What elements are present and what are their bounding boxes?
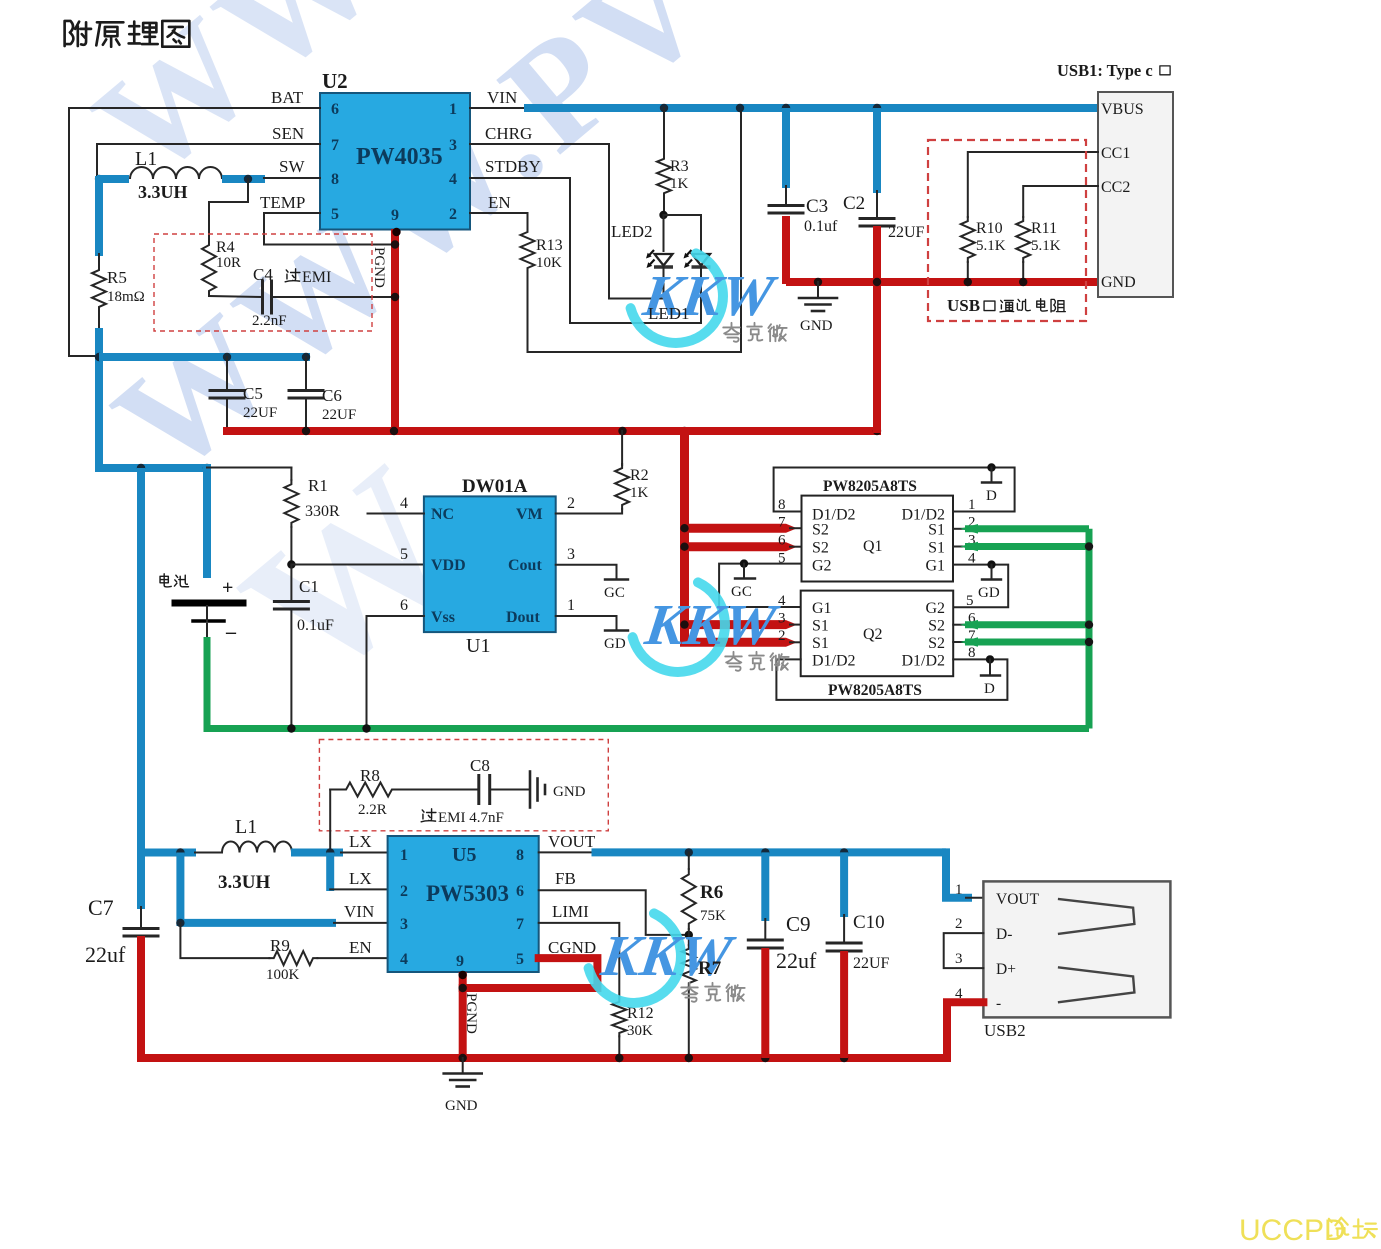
svg-text:DW01A: DW01A bbox=[462, 476, 528, 497]
USB1 connector box bbox=[1098, 92, 1173, 297]
svg-text:Dout: Dout bbox=[506, 609, 540, 626]
wire R1 top bbox=[207, 467, 291, 469]
EMI dashed box (bottom) bbox=[319, 740, 608, 831]
svg-text:10K: 10K bbox=[536, 255, 562, 271]
Q1 outer package bbox=[774, 468, 1015, 512]
node C6 on red bus bbox=[302, 427, 310, 435]
svg-text:VIN: VIN bbox=[344, 902, 374, 921]
svg-text:R2: R2 bbox=[630, 467, 649, 484]
node SW junction bbox=[244, 175, 252, 183]
svg-text:30K: 30K bbox=[627, 1023, 653, 1039]
wire CC1 to R10 bbox=[968, 152, 1098, 217]
node EN tap bbox=[736, 104, 744, 112]
label 过EMI bbox=[285, 269, 300, 282]
node FB junction bbox=[685, 931, 693, 939]
svg-text:-: - bbox=[996, 995, 1001, 1012]
svg-text:L1: L1 bbox=[135, 148, 157, 170]
svg-text:S1: S1 bbox=[812, 618, 829, 635]
wire EN via R13 to VBUS bbox=[470, 213, 528, 228]
svg-text:EN: EN bbox=[349, 938, 372, 957]
wire green Q2 S2 pin7 bbox=[953, 641, 967, 643]
wire red Q2 S1 pin2 bbox=[680, 638, 786, 647]
resistor R2 1K bbox=[615, 464, 629, 509]
svg-text:R8: R8 bbox=[360, 766, 380, 785]
svg-text:U1: U1 bbox=[466, 635, 490, 657]
ground symbol (usb area) bbox=[817, 282, 819, 297]
wire red usb gnd bus bbox=[786, 278, 1098, 286]
wire LIMI to R12 bbox=[539, 923, 620, 999]
svg-text:PW8205A8TS: PW8205A8TS bbox=[828, 682, 922, 699]
svg-text:U2: U2 bbox=[322, 69, 348, 93]
wire R8 to C8 bbox=[397, 789, 479, 791]
wire C4 to PGND bbox=[272, 296, 396, 298]
svg-text:USB: USB bbox=[947, 296, 980, 315]
wire Q1 G2 to GC and Q2 G1 bbox=[719, 564, 801, 607]
resistor R7 bbox=[682, 945, 696, 987]
svg-text:3: 3 bbox=[400, 916, 408, 933]
Q2 outer package bbox=[776, 659, 1007, 700]
node R12 on bus bbox=[615, 1054, 623, 1062]
svg-text:75K: 75K bbox=[700, 908, 726, 924]
wire blue to battery + bbox=[203, 464, 211, 578]
resistor R1 330R bbox=[290, 468, 292, 481]
svg-text:3: 3 bbox=[567, 546, 575, 563]
wire blue R5 down to node bbox=[95, 328, 103, 468]
svg-text:–: – bbox=[225, 621, 237, 643]
svg-text:VBUS: VBUS bbox=[1101, 101, 1144, 118]
IC U5 PW5303 bbox=[388, 836, 539, 972]
resistor R10 5.1K bbox=[961, 217, 975, 262]
svg-text:R10: R10 bbox=[976, 220, 1003, 237]
wire FB bbox=[539, 890, 689, 935]
capacitor C10 22UF bbox=[840, 852, 848, 917]
svg-text:3: 3 bbox=[449, 137, 457, 154]
capacitor C1 0.1uF bbox=[290, 565, 292, 602]
svg-text:R7: R7 bbox=[698, 958, 722, 979]
node R2 on red bus bbox=[618, 427, 626, 435]
svg-text:1: 1 bbox=[449, 101, 457, 118]
wire red C2 down through gnd bus to main bus bbox=[873, 226, 881, 433]
wire LED1 cathode to STDBY bbox=[470, 178, 701, 323]
logo KKW at 702,625 bbox=[633, 582, 784, 672]
svg-text:G1: G1 bbox=[925, 558, 945, 575]
svg-text:7: 7 bbox=[516, 916, 524, 933]
svg-text:G1: G1 bbox=[812, 600, 832, 617]
svg-text:VOUT: VOUT bbox=[996, 891, 1040, 908]
capacitor C3 0.1uf bbox=[782, 108, 790, 188]
svg-text:4: 4 bbox=[449, 171, 457, 188]
logo KKW at 658,956 bbox=[589, 913, 740, 1003]
svg-text:USB1: Type c: USB1: Type c bbox=[1057, 61, 1153, 80]
resistor R4 10R bbox=[202, 240, 216, 296]
wire red PGND drop bbox=[459, 972, 467, 1058]
svg-text:+: + bbox=[222, 577, 233, 599]
USB2 connector box bbox=[983, 881, 1170, 1017]
node gnd stub bbox=[814, 278, 822, 286]
svg-text:GND: GND bbox=[800, 318, 833, 334]
wire BAT net bbox=[69, 108, 320, 356]
svg-text:4: 4 bbox=[400, 495, 408, 512]
wire green riser right bbox=[1086, 529, 1093, 729]
svg-text:D+: D+ bbox=[996, 961, 1016, 978]
svg-text:VOUT: VOUT bbox=[548, 832, 596, 851]
wire blue battery to L1 bbox=[97, 175, 129, 183]
svg-text:GD: GD bbox=[978, 585, 1000, 601]
svg-text:1: 1 bbox=[968, 497, 976, 513]
node TEMP/PGND bbox=[391, 240, 399, 248]
svg-text:C2: C2 bbox=[843, 193, 865, 214]
IC U1 DW01A bbox=[424, 496, 556, 632]
svg-text:5.1K: 5.1K bbox=[976, 238, 1006, 254]
svg-text:USB2: USB2 bbox=[984, 1021, 1026, 1040]
svg-text:C10: C10 bbox=[853, 912, 885, 933]
svg-text:C9: C9 bbox=[786, 912, 811, 936]
node Qred on red bus bbox=[680, 427, 688, 435]
capacitor C6 22UF bbox=[302, 353, 310, 361]
svg-text:EMI: EMI bbox=[302, 269, 331, 286]
svg-text:R11: R11 bbox=[1031, 220, 1057, 237]
svg-text:R13: R13 bbox=[536, 237, 563, 254]
resistor R13 10K bbox=[521, 228, 535, 272]
svg-text:CC2: CC2 bbox=[1101, 179, 1130, 196]
net GD (discharge gate) bbox=[605, 629, 628, 631]
svg-text:5: 5 bbox=[400, 546, 408, 563]
resistor R3 1K bbox=[663, 108, 665, 155]
wire TEMP to PGND bbox=[264, 213, 395, 245]
wire NC stub bbox=[368, 513, 424, 515]
capacitor C9 22uf bbox=[761, 852, 769, 921]
wire Q1 G1 to GD and Q2 G2 bbox=[953, 565, 1008, 608]
wire blue long drop to boost section bbox=[137, 468, 145, 853]
wire red drop to mosfet sources bbox=[680, 427, 689, 642]
svg-text:2: 2 bbox=[955, 916, 963, 932]
svg-text:Cout: Cout bbox=[508, 557, 542, 574]
svg-text:R6: R6 bbox=[700, 882, 723, 903]
svg-text:3: 3 bbox=[778, 611, 786, 627]
svg-text:BAT: BAT bbox=[271, 88, 304, 107]
svg-text:S1: S1 bbox=[928, 522, 945, 539]
svg-text:5: 5 bbox=[331, 206, 339, 223]
svg-text:EMI 4.7nF: EMI 4.7nF bbox=[438, 810, 504, 826]
svg-text:R5: R5 bbox=[107, 268, 127, 287]
EMI dashed box (top) bbox=[154, 234, 372, 331]
title 附原理图 bbox=[65, 21, 91, 46]
wire green Q1 S1 pin3 bbox=[953, 546, 967, 548]
node BAT joins blue bbox=[95, 353, 103, 361]
svg-text:C3: C3 bbox=[806, 196, 828, 217]
svg-text:22uf: 22uf bbox=[776, 948, 817, 973]
svg-text:GND: GND bbox=[445, 1098, 478, 1114]
svg-text:0.1uf: 0.1uf bbox=[804, 218, 838, 235]
svg-text:CHRG: CHRG bbox=[485, 124, 532, 143]
svg-text:10R: 10R bbox=[216, 255, 241, 271]
svg-text:EN: EN bbox=[488, 193, 511, 212]
svg-text:6: 6 bbox=[778, 533, 786, 549]
resistor R8 2.2R bbox=[330, 789, 341, 791]
svg-text:6: 6 bbox=[331, 101, 339, 118]
node C2 on red bus bbox=[873, 427, 881, 435]
wire CC2 to R11 bbox=[1023, 186, 1098, 217]
node Vss on green bus bbox=[362, 724, 370, 732]
svg-text:L1: L1 bbox=[235, 816, 257, 838]
node long-drop junction bbox=[137, 464, 145, 472]
dashed box USB comm resistors bbox=[928, 140, 1086, 321]
svg-text:C5: C5 bbox=[243, 384, 263, 403]
svg-text:2: 2 bbox=[567, 495, 575, 512]
LED2 bbox=[646, 250, 673, 268]
svg-text:LED1: LED1 bbox=[648, 304, 690, 323]
svg-text:LIMI: LIMI bbox=[552, 902, 589, 921]
wire green Q2 S2 pin6 bbox=[953, 624, 967, 626]
resistor R9 100K bbox=[269, 951, 317, 965]
resistor R12 30K bbox=[612, 998, 626, 1036]
svg-text:R9: R9 bbox=[270, 936, 290, 955]
svg-text:VDD: VDD bbox=[431, 557, 466, 574]
svg-text:Q2: Q2 bbox=[863, 626, 883, 643]
node C10 on bus bbox=[840, 1054, 848, 1062]
wire Vss to green bus bbox=[367, 616, 424, 729]
IC U2 PW4035 bbox=[320, 93, 470, 230]
svg-text:S1: S1 bbox=[928, 540, 945, 557]
node PGND on bus bbox=[459, 1054, 467, 1062]
svg-text:2.2nF: 2.2nF bbox=[252, 313, 287, 329]
svg-text:STDBY: STDBY bbox=[485, 157, 541, 176]
svg-text:PW5303: PW5303 bbox=[426, 881, 509, 906]
wire green battery- to bus bbox=[204, 637, 211, 729]
svg-text:7: 7 bbox=[778, 515, 786, 531]
ground (sideways) for C8 bbox=[529, 772, 532, 808]
svg-text:S2: S2 bbox=[812, 522, 829, 539]
svg-text:LX: LX bbox=[349, 832, 372, 851]
resistor R6 75K bbox=[688, 852, 690, 869]
node C9 on bus bbox=[761, 1054, 769, 1062]
svg-text:CC1: CC1 bbox=[1101, 145, 1130, 162]
wire R4 to C4 bbox=[209, 296, 262, 297]
wire to LED anodes bbox=[663, 215, 665, 251]
svg-text:330R: 330R bbox=[305, 503, 340, 520]
svg-text:GD: GD bbox=[604, 636, 626, 652]
node R7 on bus bbox=[685, 1054, 693, 1062]
capacitor C4 2.2nF bbox=[261, 281, 264, 313]
wire Cout to GC bbox=[556, 565, 617, 578]
wire red bottom gnd bus bbox=[137, 1054, 947, 1062]
wire blue corner to battery column bbox=[95, 464, 207, 472]
svg-text:D: D bbox=[986, 488, 997, 504]
svg-text:S2: S2 bbox=[812, 540, 829, 557]
svg-text:6: 6 bbox=[516, 883, 524, 900]
wire battery minus stub bbox=[206, 624, 208, 640]
wire VDD bbox=[291, 564, 424, 566]
wire VOUT blue bbox=[539, 851, 593, 853]
wire C8 to gnd bbox=[490, 789, 528, 791]
capacitor C7 22uf bbox=[137, 853, 145, 910]
net D (Q2 drain) bbox=[986, 655, 994, 663]
wire LX node up to R8 bbox=[329, 790, 331, 853]
svg-text:S2: S2 bbox=[928, 618, 945, 635]
svg-text:1K: 1K bbox=[670, 176, 689, 192]
svg-text:18mΩ: 18mΩ bbox=[107, 289, 145, 305]
svg-text:2: 2 bbox=[449, 206, 457, 223]
svg-text:D1/D2: D1/D2 bbox=[901, 653, 945, 670]
svg-text:U5: U5 bbox=[452, 844, 476, 866]
usb contact shape bottom bbox=[1058, 967, 1135, 1002]
svg-text:8: 8 bbox=[516, 847, 524, 864]
svg-text:9: 9 bbox=[391, 207, 399, 224]
svg-text:R4: R4 bbox=[216, 239, 235, 256]
usb contact shape top bbox=[1058, 899, 1135, 934]
wire green Q1 S1 pin2 bbox=[953, 528, 967, 530]
svg-text:8: 8 bbox=[331, 171, 339, 188]
svg-text:7: 7 bbox=[331, 137, 339, 154]
wire blue L1 to SW bbox=[222, 175, 265, 183]
svg-text:22UF: 22UF bbox=[243, 405, 277, 421]
svg-text:C4: C4 bbox=[253, 265, 273, 284]
svg-text:1K: 1K bbox=[630, 485, 649, 501]
svg-text:100K: 100K bbox=[266, 967, 300, 983]
svg-text:4: 4 bbox=[400, 951, 408, 968]
svg-text:D: D bbox=[984, 681, 995, 697]
svg-text:PGND: PGND bbox=[371, 247, 387, 288]
wire red C3 to gnd bus bbox=[782, 216, 790, 284]
svg-text:TEMP: TEMP bbox=[260, 193, 305, 212]
svg-text:4: 4 bbox=[778, 593, 786, 609]
svg-text:0.1uF: 0.1uF bbox=[297, 617, 334, 634]
wire EN via R9 bbox=[180, 923, 269, 958]
node VDD junction bbox=[287, 560, 295, 568]
wire red C7 to bottom bus bbox=[137, 936, 145, 1062]
wire D- D+ bracket bbox=[944, 933, 984, 968]
svg-text:PW4035: PW4035 bbox=[356, 144, 443, 170]
svg-text:PW8205A8TS: PW8205A8TS bbox=[823, 478, 917, 495]
svg-text:3: 3 bbox=[955, 951, 963, 967]
wire VM to R2 bbox=[556, 509, 622, 514]
node PGND on red bus bbox=[390, 427, 398, 435]
net GC (charge gate) bbox=[605, 578, 628, 580]
wire blue battery bus horizontal bbox=[99, 353, 310, 361]
svg-text:C8: C8 bbox=[470, 756, 490, 775]
svg-text:GND: GND bbox=[1101, 274, 1136, 291]
wire VIN to VBUS bbox=[470, 107, 526, 109]
ground symbol (bottom) bbox=[462, 1058, 464, 1073]
label 过EMI 4.7nF bbox=[421, 809, 436, 822]
node battery/R1 junction bbox=[203, 464, 211, 472]
wire red Q1 S2 pin6 bbox=[685, 542, 787, 551]
wire red USB2 minus to bus bbox=[947, 1002, 983, 1058]
svg-text:D1/D2: D1/D2 bbox=[812, 653, 856, 670]
capacitor C2 22UF bbox=[873, 108, 881, 193]
net D (Q1 drain) bbox=[987, 463, 995, 471]
svg-text:G2: G2 bbox=[812, 558, 832, 575]
svg-text:5: 5 bbox=[516, 951, 524, 968]
node C2/gnd bus bbox=[873, 278, 881, 286]
svg-text:5.1K: 5.1K bbox=[1031, 238, 1061, 254]
svg-text:9: 9 bbox=[456, 953, 464, 970]
svg-text:1: 1 bbox=[400, 847, 408, 864]
svg-text:22UF: 22UF bbox=[322, 407, 356, 423]
node C2 tap bbox=[873, 104, 881, 112]
svg-text:22uf: 22uf bbox=[85, 942, 126, 967]
svg-text:22UF: 22UF bbox=[888, 224, 925, 241]
node L1 left junction bbox=[95, 175, 103, 183]
svg-text:Vss: Vss bbox=[431, 609, 455, 626]
resistor R5 18mohm bbox=[95, 176, 103, 256]
svg-text:S2: S2 bbox=[928, 635, 945, 652]
inductor L1 (bottom) 3.3UH bbox=[137, 849, 196, 857]
watermark WWW.PW bbox=[65, 0, 745, 724]
mosfet Q2 body bbox=[801, 591, 954, 677]
svg-text:R3: R3 bbox=[670, 158, 689, 175]
svg-text:SW: SW bbox=[279, 157, 305, 176]
inductor L1 (top) 3.3UH bbox=[130, 167, 222, 179]
svg-text:NC: NC bbox=[431, 506, 454, 523]
wire red CGND to PGND bbox=[463, 958, 598, 988]
wire blue VIN feed bbox=[176, 853, 184, 927]
wire red PGND drop from U2 pin9 bbox=[391, 229, 399, 431]
wire SW to R4 bbox=[209, 179, 248, 240]
wire blue LX2 bbox=[326, 853, 334, 892]
svg-text:FB: FB bbox=[555, 869, 576, 888]
svg-text:VIN: VIN bbox=[487, 88, 517, 107]
svg-text:1: 1 bbox=[955, 882, 963, 898]
svg-text:2: 2 bbox=[400, 883, 408, 900]
svg-text:C1: C1 bbox=[299, 577, 319, 596]
wire SW bbox=[264, 177, 320, 179]
svg-text:R1: R1 bbox=[308, 476, 328, 495]
wire SEN bbox=[97, 144, 320, 176]
wire Dout to GD bbox=[556, 616, 617, 629]
svg-text:C6: C6 bbox=[322, 386, 342, 405]
node C1 on green bus bbox=[287, 724, 295, 732]
node C3 tap bbox=[782, 104, 790, 112]
wire red Q2 S1 pin3 bbox=[685, 620, 787, 629]
svg-text:Q1: Q1 bbox=[863, 538, 883, 555]
svg-text:C7: C7 bbox=[88, 895, 114, 920]
capacitor C8 4.7nF bbox=[477, 776, 480, 804]
svg-text:6: 6 bbox=[400, 597, 408, 614]
svg-text:5: 5 bbox=[966, 593, 974, 609]
wire green bottom bus bbox=[204, 725, 1090, 732]
wire LED2 cathode to CHRG bbox=[470, 144, 664, 299]
node R3 tap bbox=[660, 104, 668, 112]
svg-text:LX: LX bbox=[349, 869, 372, 888]
mosfet Q1 body bbox=[802, 496, 954, 582]
node LED split bbox=[659, 211, 667, 219]
wire red main bus (charger gnd) bbox=[223, 427, 881, 435]
svg-text:LED2: LED2 bbox=[611, 222, 653, 241]
node C4/PGND bbox=[391, 293, 399, 301]
svg-text:3.3UH: 3.3UH bbox=[218, 872, 270, 893]
logo KKW at 700,296 bbox=[631, 253, 782, 343]
svg-text:S1: S1 bbox=[812, 635, 829, 652]
svg-text:3.3UH: 3.3UH bbox=[138, 182, 188, 202]
svg-text:8: 8 bbox=[778, 497, 786, 513]
svg-text:PGND: PGND bbox=[463, 993, 479, 1034]
LED1 bbox=[684, 250, 711, 268]
battery 电池 bbox=[160, 574, 171, 587]
svg-text:2.2R: 2.2R bbox=[358, 802, 387, 818]
wire red Q1 S2 pin7 bbox=[685, 524, 787, 533]
svg-text:D-: D- bbox=[996, 926, 1012, 943]
svg-text:VM: VM bbox=[516, 506, 543, 523]
svg-text:1: 1 bbox=[567, 597, 575, 614]
svg-text:SEN: SEN bbox=[272, 124, 304, 143]
resistor R11 5.1K bbox=[1016, 217, 1030, 262]
capacitor C5 22UF bbox=[223, 353, 231, 361]
svg-text:2: 2 bbox=[778, 628, 786, 644]
svg-text:GND: GND bbox=[553, 784, 586, 800]
svg-text:G2: G2 bbox=[925, 600, 945, 617]
svg-text:22UF: 22UF bbox=[853, 955, 890, 972]
